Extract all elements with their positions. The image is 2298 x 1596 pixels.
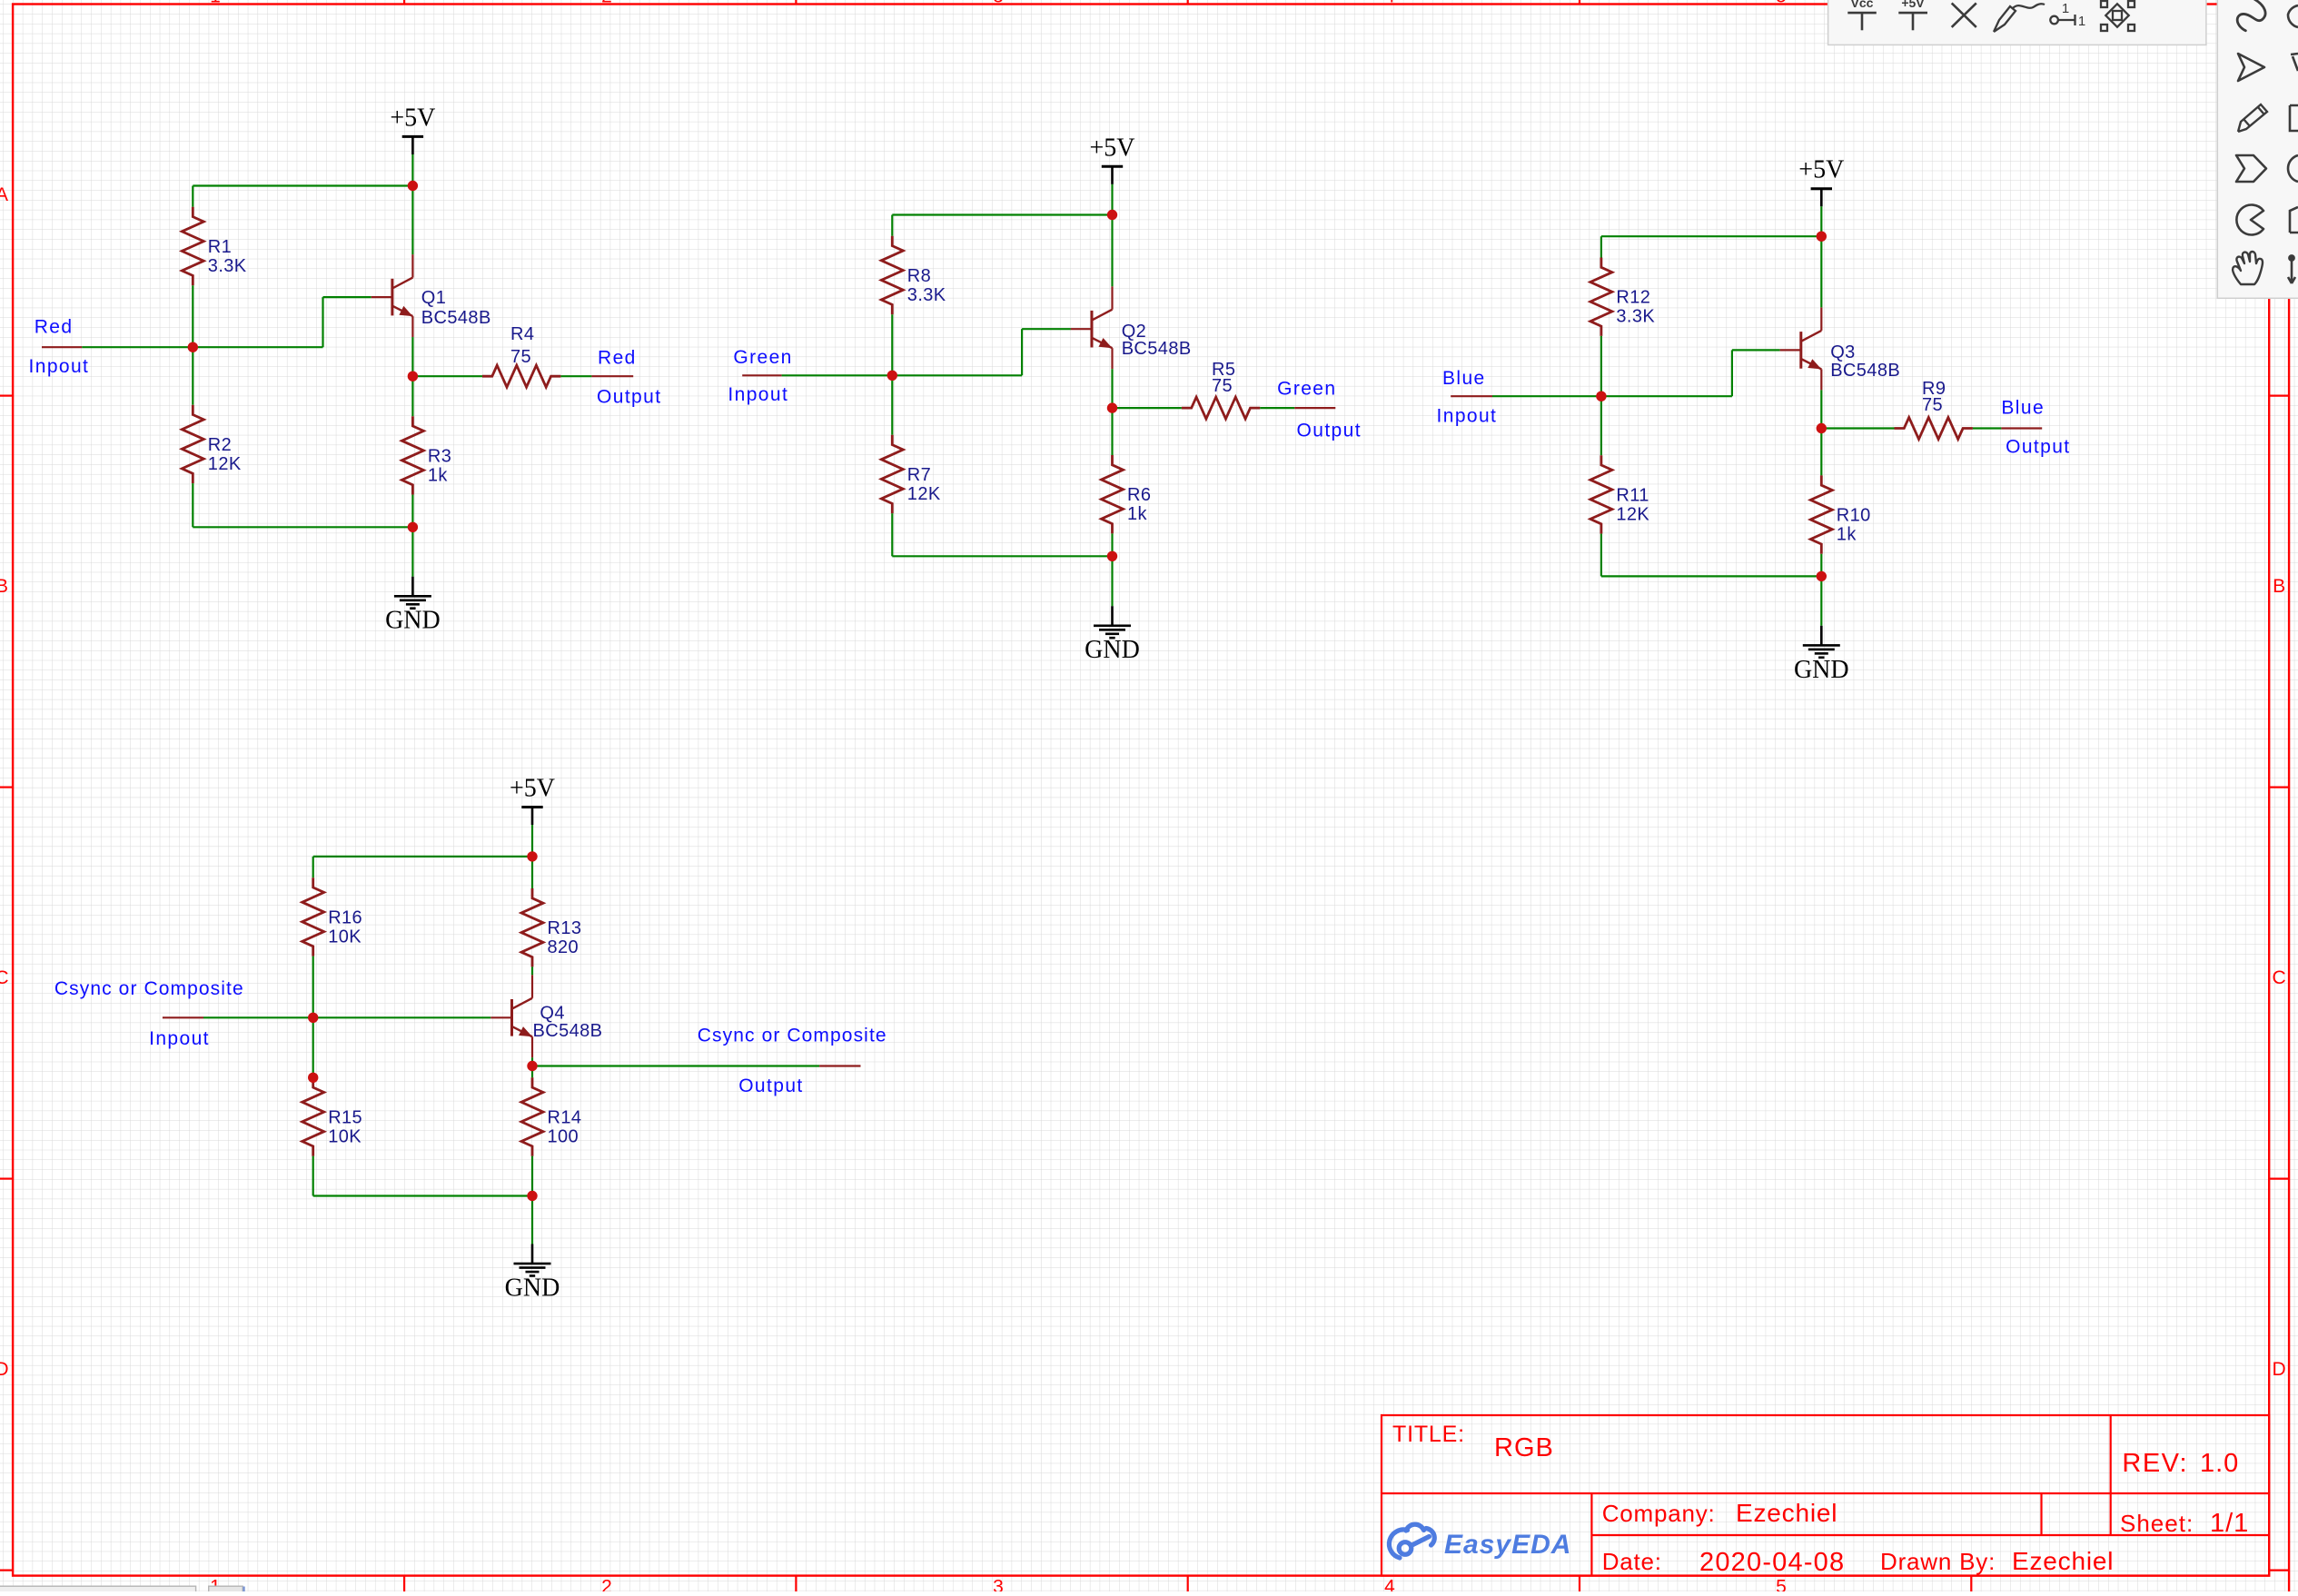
title block logo cell divider	[1590, 1493, 1592, 1576]
svg-text:Q1: Q1	[421, 288, 446, 308]
frame zone tick left 4	[0, 1569, 13, 1571]
svg-text:1k: 1k	[428, 465, 449, 485]
wire top rail stage2	[892, 213, 1112, 215]
resistor R4	[482, 365, 560, 387]
svg-text:2: 2	[601, 0, 612, 7]
svg-text:3.3K: 3.3K	[208, 256, 247, 276]
wire bottom rail stage4	[313, 1195, 532, 1196]
svg-text:D: D	[2273, 1359, 2286, 1380]
svg-text:100: 100	[548, 1127, 579, 1147]
toolbar icon partial arc right column	[2288, 5, 2298, 27]
frame zone tick top 4	[1579, 0, 1580, 5]
wire bottom rail stage3	[1601, 575, 1821, 577]
svg-text:R16: R16	[328, 907, 362, 927]
junction node output stage3	[1817, 423, 1827, 433]
resistor R13	[521, 888, 543, 967]
wire bottom rail stage2	[892, 555, 1112, 557]
wire rail to R16	[312, 857, 314, 877]
wire Red input	[82, 346, 193, 348]
svg-text:3: 3	[993, 1576, 1004, 1591]
svg-text:3.3K: 3.3K	[907, 285, 946, 305]
svg-text:R1: R1	[208, 237, 232, 257]
toolbar icon Vcc	[1847, 13, 1877, 30]
svg-text:75: 75	[510, 347, 531, 367]
toolbar icon partial rect right column	[2290, 105, 2298, 131]
toolbar icon symbol frame	[2101, 1, 2135, 31]
wire Blue input	[1492, 395, 1601, 397]
wire +5V stem to rail node stage4	[531, 825, 533, 857]
svg-text:Inpout: Inpout	[1437, 406, 1498, 427]
svg-text:R2: R2	[208, 435, 232, 455]
resistor R8	[881, 236, 903, 314]
junction node output stage1	[408, 372, 418, 382]
wire R4 to output port	[560, 375, 591, 377]
wire R2 to bottom rail	[192, 483, 193, 527]
tab sheet1	[209, 1586, 243, 1593]
svg-text:GND: GND	[1085, 636, 1140, 664]
wire input node to R11	[1600, 396, 1602, 455]
port pin Blue input	[1451, 395, 1492, 397]
wire rail to R1	[192, 186, 193, 207]
svg-text:Inpout: Inpout	[149, 1028, 210, 1049]
svg-text:Date:: Date:	[1602, 1548, 1662, 1575]
svg-text:R8: R8	[907, 266, 931, 286]
frame zone tick bottom 1	[403, 1576, 405, 1591]
svg-text:B: B	[2273, 576, 2285, 597]
toolbar panel top right	[1828, 0, 2206, 45]
frame zone tick top 5	[1970, 0, 1972, 5]
svg-text:GND: GND	[505, 1274, 560, 1303]
svg-text:2020-04-08: 2020-04-08	[1699, 1548, 1845, 1577]
junction node bottom rail stage4	[527, 1191, 537, 1201]
junction node R15 top	[308, 1073, 318, 1083]
ground GND stage3	[1820, 626, 1823, 646]
port pin Green output	[1294, 407, 1335, 409]
frame zone tick right 3	[2269, 1177, 2289, 1179]
tab bar bottom left	[0, 1586, 196, 1593]
svg-text:Csync or Composite: Csync or Composite	[698, 1026, 887, 1046]
junction node top rail stage4	[527, 851, 537, 861]
toolbar icon netport	[2050, 16, 2058, 25]
svg-text:Output: Output	[2006, 436, 2070, 457]
frame zone tick bottom 2	[795, 1576, 797, 1591]
junction node input stage1	[188, 342, 198, 352]
wire output node to R5	[1113, 407, 1182, 409]
wire step to base Q3	[1732, 349, 1780, 351]
svg-text:Drawn By:: Drawn By:	[1880, 1548, 1996, 1575]
svg-text:R10: R10	[1837, 506, 1871, 526]
toolbar icon probe pen	[1994, 4, 2045, 32]
resistor R10	[1810, 475, 1832, 553]
svg-text:10K: 10K	[328, 927, 362, 947]
frame zone tick bottom 5	[1970, 1576, 1972, 1591]
svg-text:C: C	[2273, 967, 2286, 988]
svg-text:Ezechiel: Ezechiel	[2012, 1547, 2114, 1575]
svg-text:+5V: +5V	[1901, 0, 1925, 10]
svg-text:BC548B: BC548B	[533, 1021, 603, 1041]
wire output node to R4	[412, 375, 482, 377]
port pin Green input	[742, 374, 781, 376]
title block rev divider	[2110, 1415, 2112, 1535]
toolbar icon arc pacman	[2236, 204, 2263, 234]
wire output node to R14	[531, 1066, 533, 1078]
frame zone tick left 1	[0, 395, 13, 397]
svg-text:Company:: Company:	[1602, 1500, 1716, 1527]
svg-text:Output: Output	[1297, 421, 1362, 441]
svg-text:B: B	[0, 576, 8, 597]
svg-text:1.0: 1.0	[2200, 1449, 2239, 1478]
wire output node to R3	[411, 376, 413, 416]
svg-text:4: 4	[1384, 1576, 1395, 1591]
wire R5 to output port	[1260, 407, 1294, 409]
wire input to base Q4	[313, 1016, 491, 1018]
svg-text:1: 1	[210, 0, 221, 7]
svg-text:BC548B: BC548B	[421, 308, 491, 328]
svg-text:75: 75	[1212, 376, 1233, 396]
svg-text:Output: Output	[597, 387, 661, 408]
toolbar icon arrow	[2238, 54, 2264, 81]
wire rail to Q3 collector	[1820, 236, 1822, 307]
svg-text:Inpout: Inpout	[728, 384, 788, 405]
wire Q4 emitter to output node	[531, 1057, 533, 1066]
svg-text:R14: R14	[548, 1108, 582, 1128]
wire input node to R2	[192, 347, 193, 405]
junction node output stage2	[1107, 402, 1117, 412]
svg-text:Sheet:: Sheet:	[2120, 1510, 2194, 1537]
frame zone tick top 3	[1187, 0, 1189, 5]
wire output node to R10	[1820, 429, 1822, 476]
resistor R15	[302, 1077, 324, 1155]
svg-text:Green: Green	[1277, 379, 1336, 400]
toolbar icon hand	[2233, 252, 2263, 284]
junction node top rail stage1	[408, 181, 418, 191]
wire base step vertical stage3	[1731, 350, 1733, 396]
svg-text:R13: R13	[548, 918, 582, 938]
frame zone tick left 3	[0, 1177, 13, 1179]
svg-text:12K: 12K	[208, 454, 242, 474]
resistor R5	[1182, 397, 1260, 419]
frame zone tick top 1	[403, 0, 405, 5]
svg-text:Green: Green	[733, 347, 792, 368]
svg-text:2: 2	[601, 1576, 612, 1591]
svg-text:4: 4	[1384, 0, 1395, 7]
resistor R2	[182, 405, 203, 483]
resistor R3	[401, 416, 423, 494]
svg-text:3: 3	[993, 0, 1004, 7]
svg-text:+5V: +5V	[1089, 134, 1134, 162]
wire R13 to Q4 collector	[531, 967, 533, 975]
svg-text:Red: Red	[35, 317, 74, 338]
resistor R11	[1590, 455, 1612, 533]
svg-text:REV:: REV:	[2122, 1449, 2188, 1478]
port pin Csync output	[819, 1065, 860, 1066]
wire input node to R15 junction	[312, 1017, 314, 1077]
svg-text:75: 75	[1922, 395, 1943, 415]
wire Green input	[782, 374, 893, 376]
svg-text:EasyEDA: EasyEDA	[1444, 1530, 1571, 1560]
wire rail to R8	[891, 215, 893, 236]
resistor R14	[521, 1077, 543, 1155]
sheet outer border right line	[2288, 0, 2290, 1591]
svg-text:3.3K: 3.3K	[1616, 307, 1655, 327]
resistor R6	[1102, 455, 1124, 533]
toolbar icon partial shape2 right column	[2291, 54, 2298, 71]
wire R11 to bottom rail stage3	[1600, 534, 1602, 577]
svg-text:R4: R4	[510, 324, 534, 344]
ground GND stage2	[1111, 606, 1114, 626]
port pin Red input	[42, 346, 82, 348]
wire R6 to bottom node	[1111, 533, 1113, 556]
toolbar icon pencil	[2238, 104, 2267, 132]
wire R10 to bottom node	[1820, 554, 1822, 577]
toolbar icon partial circle right column	[2288, 155, 2298, 182]
wire bottom node to GND stage3	[1820, 576, 1822, 625]
resistor R7	[881, 435, 903, 513]
svg-text:Vcc: Vcc	[1851, 0, 1874, 10]
wire input to base step horizontal stage3	[1601, 395, 1732, 397]
wire R7 to bottom rail stage2	[891, 513, 893, 556]
resistor R1	[182, 207, 203, 285]
junction node bottom rail stage1	[408, 522, 418, 532]
svg-text:GND: GND	[385, 607, 441, 635]
svg-text:R6: R6	[1127, 485, 1151, 505]
svg-text:Red: Red	[598, 348, 637, 369]
logo EasyEDA cloud icon	[1389, 1524, 1434, 1558]
frame zone tick top 2	[795, 0, 797, 5]
frame zone tick bottom 3	[1187, 1576, 1189, 1591]
wire base step vertical	[322, 297, 323, 347]
port pin Csync input	[163, 1016, 203, 1018]
wire top rail stage4	[313, 856, 532, 857]
frame zone tick left 2	[0, 786, 13, 788]
frame zone tick bottom 4	[1579, 1576, 1580, 1591]
transistor Q1	[371, 296, 392, 298]
svg-text:Blue: Blue	[1442, 368, 1486, 389]
junction node top rail stage3	[1817, 232, 1827, 242]
junction node bottom rail stage2	[1107, 551, 1117, 561]
svg-text:R12: R12	[1616, 288, 1650, 308]
svg-text:820: 820	[548, 937, 579, 957]
port pin Blue output	[2001, 427, 2042, 429]
svg-text:TITLE:: TITLE:	[1392, 1422, 1465, 1447]
svg-text:Output: Output	[738, 1076, 803, 1096]
svg-text:+5V: +5V	[1798, 156, 1844, 184]
svg-text:R3: R3	[428, 446, 451, 466]
toolbar icon partial arrow right column	[2288, 255, 2295, 283]
wire +5V stem to rail node stage3	[1820, 206, 1822, 236]
svg-text:12K: 12K	[1616, 504, 1649, 524]
junction node input stage4	[308, 1013, 318, 1023]
svg-text:+5V: +5V	[510, 775, 555, 803]
svg-text:10K: 10K	[328, 1127, 362, 1147]
wire bottom rail stage1	[193, 526, 412, 528]
wire Csync input	[203, 1016, 313, 1018]
transistor Q3	[1780, 349, 1801, 351]
junction node input stage3	[1596, 392, 1606, 401]
toolbar icon wave	[2234, 0, 2269, 35]
svg-text:Q3: Q3	[1830, 342, 1855, 362]
toolbar icon partial poly right column	[2290, 207, 2298, 233]
wire R12 to input node	[1600, 336, 1602, 396]
wire bottom node to GND stage1	[411, 527, 413, 576]
ground GND stage4	[531, 1244, 534, 1264]
svg-text:D: D	[0, 1359, 9, 1380]
wire Q1 emitter to output node	[411, 337, 413, 376]
svg-text:Inpout: Inpout	[29, 356, 90, 377]
wire R9 to output port	[1973, 427, 2002, 429]
svg-text:Csync or Composite: Csync or Composite	[54, 978, 244, 999]
wire input to base step horizontal stage2	[892, 374, 1022, 376]
resistor R16	[302, 877, 324, 956]
wire input to base step horizontal	[193, 346, 322, 348]
svg-text:5: 5	[1776, 0, 1787, 7]
svg-text:1: 1	[2078, 14, 2085, 29]
svg-text:R15: R15	[328, 1108, 362, 1128]
wire base step vertical stage2	[1021, 329, 1023, 375]
svg-text:R7: R7	[907, 465, 931, 485]
wire input node to R7	[891, 375, 893, 435]
port pin Red output	[591, 375, 633, 377]
svg-text:1k: 1k	[1837, 525, 1857, 545]
svg-text:1/1: 1/1	[2210, 1509, 2249, 1538]
wire R16 to input node stage4	[312, 957, 314, 1018]
svg-text:12K: 12K	[907, 484, 941, 504]
transistor Q4	[490, 1016, 511, 1018]
wire Q2 emitter to output node	[1111, 369, 1113, 408]
wire rail to R12	[1600, 236, 1602, 257]
wire R1 to input node	[192, 285, 193, 347]
wire output node to R6	[1111, 408, 1113, 455]
toolbar icon chevron	[2236, 155, 2266, 182]
title block row line 2	[1591, 1534, 2269, 1536]
wire step to base Q1	[323, 296, 371, 298]
svg-text:A: A	[0, 184, 8, 205]
toolbar icon no-connect X	[1952, 3, 1976, 27]
junction node output stage4	[527, 1061, 537, 1071]
svg-text:C: C	[0, 967, 9, 988]
title block company/sheet divider	[2040, 1493, 2042, 1535]
svg-text:1: 1	[2062, 1, 2069, 16]
wire R3 to bottom node	[411, 495, 413, 528]
junction node input stage2	[887, 371, 897, 381]
junction node top rail stage2	[1107, 210, 1117, 220]
svg-text:Ezechiel: Ezechiel	[1736, 1499, 1837, 1527]
svg-text:1k: 1k	[1127, 504, 1148, 524]
wire +5V stem to rail node stage2	[1111, 184, 1113, 215]
svg-text:+5V: +5V	[390, 104, 435, 132]
wire step to base Q2	[1022, 328, 1071, 330]
resistor R9	[1895, 418, 1973, 440]
wire rail to Q2 collector	[1111, 215, 1113, 287]
toolbar panel right side	[2217, 0, 2298, 298]
svg-text:RGB: RGB	[1494, 1433, 1554, 1462]
wire R15 to bottom rail stage4	[312, 1156, 314, 1196]
title block row line 1	[1382, 1492, 2269, 1494]
wire top rail stage3	[1601, 235, 1821, 237]
svg-text:BC548B: BC548B	[1122, 339, 1192, 359]
title block outline	[1382, 1415, 2269, 1576]
wire rail to Q1 collector	[411, 186, 413, 255]
svg-text:GND: GND	[1794, 656, 1849, 684]
svg-text:R11: R11	[1616, 485, 1649, 505]
wire R8 to input node	[891, 314, 893, 375]
wire bottom node to GND stage2	[1111, 556, 1113, 606]
wire bottom node to GND stage4	[531, 1196, 533, 1244]
wire output node to R9	[1821, 427, 1894, 429]
frame zone tick right 4	[2269, 1569, 2289, 1571]
transistor Q2	[1071, 328, 1092, 330]
ground GND stage1	[411, 577, 414, 597]
toolbar icon +5V	[1898, 13, 1927, 30]
wire rail node to R13	[531, 857, 533, 888]
frame zone tick right 1	[2269, 395, 2289, 397]
svg-text:5: 5	[1776, 1576, 1787, 1591]
wire Q3 emitter to output node	[1820, 390, 1822, 428]
svg-text:BC548B: BC548B	[1830, 361, 1900, 381]
frame zone tick right 2	[2269, 786, 2289, 788]
wire +5V stem to rail node stage1	[411, 154, 413, 186]
svg-text:Blue: Blue	[2001, 398, 2045, 419]
wire top rail stage1	[193, 184, 412, 186]
junction node bottom rail stage3	[1817, 571, 1827, 581]
wire Csync output	[532, 1065, 819, 1066]
resistor R12	[1590, 258, 1612, 336]
wire R14 to bottom node stage4	[531, 1156, 533, 1196]
